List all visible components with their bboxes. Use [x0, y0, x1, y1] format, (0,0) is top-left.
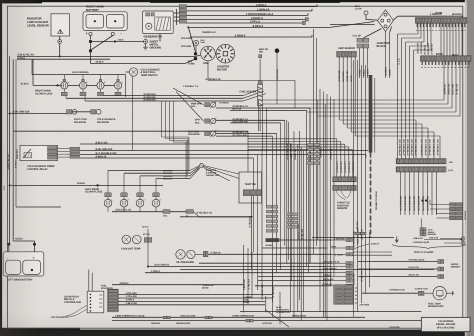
- wire YEL BLK 4A long: [180, 216, 252, 218]
- wire temp switch down: [132, 76, 134, 150]
- low coolant level sensor: [51, 14, 69, 36]
- wire bus BLK-52 battery to ground: [91, 41, 144, 43]
- wires right glow connectors right: [104, 95, 123, 97]
- relay output cells: [70, 147, 80, 149]
- coolant temp senders: [122, 235, 131, 244]
- wire PPL-2: [186, 22, 302, 24]
- eng oil switch: [275, 48, 280, 53]
- ECM connector brown strip: [415, 18, 466, 24]
- wire PNK YEL pair: [258, 276, 332, 278]
- blk loop connector: [364, 11, 368, 15]
- wire RUST-2: [186, 18, 305, 20]
- wire temp switch: [126, 71, 130, 73]
- california title box: [421, 317, 470, 331]
- battery LH case: [3, 252, 44, 276]
- inline connectors at line ends: [346, 238, 349, 241]
- wires egr diagonal feeds: [173, 88, 204, 105]
- wire RED bottom 288: [255, 285, 332, 287]
- fuel heater element: [257, 85, 262, 106]
- fuel tank sender wire: [362, 292, 418, 294]
- wire long bottom 317: [112, 316, 365, 318]
- bottom band connector symbols: [163, 316, 166, 319]
- wire stub bus 207: [16, 206, 61, 208]
- ECM plug strip row 2: [396, 167, 446, 172]
- glow feed drop wires: [161, 101, 163, 137]
- wire TO BLK bus: [10, 184, 163, 186]
- wire BLK 30 pair top: [440, 238, 462, 240]
- firewall cell block: [334, 285, 354, 304]
- wire blk loop: [365, 15, 367, 20]
- wire label tags cluster B: [266, 206, 271, 209]
- wire temp sw down: [251, 196, 253, 270]
- tie connectors: [163, 210, 170, 214]
- wire DK GRN-52A mid: [80, 150, 368, 152]
- wires cal sp down: [359, 48, 361, 78]
- glow plug left bank: [105, 193, 111, 197]
- battery RH cell 2: [106, 14, 124, 28]
- starter solenoid: [201, 46, 216, 61]
- scan edge bottom bar: [0, 330, 474, 336]
- wire long bottom 320: [112, 320, 421, 322]
- starter connector: [193, 40, 198, 45]
- oil pressure connector: [203, 251, 205, 256]
- ground symbol: [145, 44, 147, 48]
- ECM black pin numbers: [422, 61, 423, 65]
- paper grain texture: [0, 0, 1, 1]
- wire DK GRN long: [148, 266, 332, 268]
- wires between ECM connectors: [440, 23, 442, 56]
- scan edge left bar: [0, 0, 2, 336]
- wire PPL bus: [262, 247, 327, 249]
- wire sender ground: [446, 292, 452, 294]
- wires ECM black bend left to center: [443, 61, 445, 100]
- fast cold solenoid: [67, 110, 72, 114]
- sensor connector ring: [58, 40, 62, 44]
- wire battery feed to starter: [17, 55, 196, 57]
- wire stack to starter diagonal: [188, 26, 196, 52]
- wire BRN-2A: [186, 10, 312, 12]
- wire ORN-500: [279, 239, 331, 241]
- bottom center vertical bundle: [243, 245, 245, 313]
- battery LH cell 2: [23, 260, 41, 274]
- wire diagonal to bottom band: [265, 310, 289, 328]
- wire glow return bus: [112, 211, 186, 213]
- wires to LH battery: [7, 243, 10, 246]
- wires ECM brown to left bundle: [417, 23, 419, 34]
- wire LT BLU-509: [80, 154, 366, 156]
- temp switch connector: [243, 190, 261, 196]
- wire sensor down to bus: [59, 43, 61, 56]
- wire DK GRN-52A bus: [10, 113, 68, 115]
- wire long bus 131: [13, 130, 248, 132]
- sheet metal ground connector: [144, 40, 148, 44]
- wire RED THERMO 4A-2: [186, 14, 308, 16]
- relay pigtails: [66, 306, 87, 318]
- wire long bottom 311: [240, 311, 421, 313]
- wire RED-2 main feed: [187, 26, 330, 28]
- glow plug right bank: [63, 75, 65, 80]
- cal sp sensor connector: [357, 38, 363, 42]
- wire RED-2 to right: [186, 6, 317, 8]
- fusible element bar: [266, 238, 280, 242]
- wire BRN-6: [190, 36, 312, 38]
- transfer case connector: [355, 232, 360, 235]
- wire lower feed: [17, 58, 110, 60]
- wire RH battery negative diagonal: [91, 36, 113, 51]
- wire coolant up: [147, 229, 149, 238]
- wire BRN-29: [80, 157, 254, 159]
- battery RH cell 1: [86, 14, 104, 28]
- map sensor connector: [337, 51, 357, 57]
- wire label tags cluster A: [308, 144, 314, 147]
- glow plug relay controller box: [87, 291, 104, 313]
- wire coolant down: [147, 242, 149, 266]
- wires junction block fan down: [364, 29, 382, 39]
- TPS pigtails: [336, 191, 351, 200]
- main left feeder wires: [9, 56, 11, 244]
- battery RH case: [83, 12, 127, 31]
- accessory connector cluster: [450, 203, 456, 206]
- firewall connector stack: [108, 289, 119, 312]
- wire fuel heater bottom: [259, 106, 261, 132]
- cold advance solenoid: [91, 110, 96, 114]
- top junction connector stack: [179, 5, 186, 8]
- wires GRN-50A trio: [122, 95, 243, 97]
- generator: [143, 11, 174, 34]
- wire RED-2 bottom: [112, 284, 244, 286]
- wires to speed sensor: [421, 219, 423, 228]
- starter motor: [216, 44, 235, 63]
- battery LH cell 1: [6, 260, 21, 274]
- to ip speed sensor connector: [420, 228, 423, 230]
- wire RH battery positive down: [90, 36, 92, 40]
- wire junction to right: [393, 16, 398, 20]
- wires left bank feeds: [108, 169, 190, 171]
- wires map bundle to plug strip: [339, 119, 416, 121]
- egr solenoid 3: [205, 131, 210, 135]
- ip bundle stubs: [352, 251, 392, 253]
- wires splice out to temp box: [204, 166, 240, 175]
- coolant temp connector: [144, 238, 148, 243]
- wire generator output: [159, 34, 161, 42]
- wire PNK-2 long: [145, 272, 332, 274]
- wire DK GRN mid long: [180, 269, 434, 271]
- frame of dash boundary: [369, 75, 373, 153]
- ECM plug strip row 1: [396, 159, 446, 164]
- cold advance fast idle temp switch: [129, 68, 137, 76]
- wire sensor to connector: [59, 36, 61, 40]
- ECM connector black strip: [420, 56, 471, 61]
- wire DK BRN-52A bus: [32, 74, 126, 76]
- right bottom feeder verticals: [353, 60, 355, 317]
- wires below ECM plug: [400, 172, 402, 215]
- wire label tags cluster C: [287, 213, 292, 216]
- wire 52 BLK to starter: [91, 63, 186, 65]
- egr solenoid 1: [205, 103, 210, 107]
- cold advance timer control relay: [20, 145, 58, 160]
- wire oil pressure stub: [195, 253, 203, 255]
- wires map sensor down: [338, 57, 340, 86]
- oil pressure senders: [176, 250, 185, 259]
- center vertical bundle: [293, 131, 295, 317]
- wires relay box up: [88, 270, 90, 292]
- splice twist: [200, 164, 204, 168]
- wires TPS feeders: [248, 138, 337, 140]
- throttle position sensor connector 1: [333, 177, 356, 182]
- wires feeds converge: [190, 166, 199, 170]
- part of ip harn brace: [392, 245, 466, 249]
- ECM brown pin numbers: [417, 23, 418, 27]
- temp switch box: [239, 172, 262, 203]
- wire YEL BLK bottom: [199, 262, 332, 264]
- wire PNK BLK 39: [207, 61, 209, 81]
- wires into accessory cluster: [430, 204, 450, 206]
- wires right bank glow to bus: [68, 84, 80, 86]
- fuel tank sender connector: [418, 291, 421, 295]
- wire glow bus right bank: [33, 84, 63, 86]
- wire BLK-30: [424, 239, 462, 241]
- wire solenoid to motor: [214, 53, 217, 55]
- junction block diamond: [378, 10, 394, 32]
- scan edge top bar: [0, 0, 474, 2]
- water sensor wires: [358, 261, 437, 263]
- egr solenoid 2: [205, 119, 210, 123]
- throttle position sensor connector 2: [333, 185, 356, 190]
- wire fuel heater top: [259, 59, 261, 81]
- wire BLK-150 long: [80, 143, 290, 145]
- scan edge right gray strip: [467, 0, 474, 336]
- wire eng oil down: [276, 53, 278, 105]
- fuel tank sender unit: [433, 287, 446, 300]
- wires generator to stack: [174, 12, 179, 14]
